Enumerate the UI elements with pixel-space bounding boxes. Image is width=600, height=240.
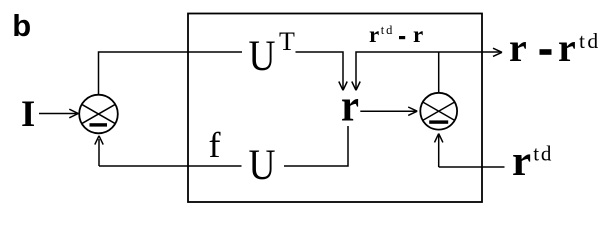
wire f/U horizontal line left segment [99,165,242,167]
arrowhead down at r (left) [339,82,347,91]
M2 minus bar [429,120,448,123]
svg-text:U: U [249,33,276,80]
svg-text:T: T [279,27,295,56]
arrow r^td up into M2 [438,134,440,167]
svg-text:f: f [209,125,221,165]
multiplier node M2 (right circle) [420,93,457,130]
svg-text:r: r [512,138,531,185]
svg-text:I: I [21,94,35,135]
wire U^T to r (left elbow) [296,52,344,89]
svg-text:r: r [413,22,423,47]
svg-text:r: r [369,22,379,47]
svg-text:td: td [579,29,600,53]
svg-text:td: td [533,142,553,166]
svg-text:td: td [381,23,394,37]
wire from f/U line up into M1 (arrow) [98,139,100,166]
M2 cross X [423,102,455,121]
wire M1 top to U^T line [99,52,243,94]
svg-text:b: b [12,8,31,43]
svg-text:r: r [558,25,576,70]
M1 cross X [81,104,115,124]
arrow r to M2 [360,107,417,115]
svg-text:U: U [249,142,276,189]
arrowhead down at r (right) [352,82,360,91]
M1 minus bar [90,123,108,126]
arrow I to M1 [39,109,78,118]
arrowhead right at output r - r^td [493,48,502,56]
svg-text:r: r [341,81,359,131]
wire r^td horizontal into box [439,166,505,168]
wire U to r: right segment and up [284,126,348,166]
box (outer rectangle of model) [188,14,482,203]
wire junction down to M2 top [438,52,440,93]
svg-text:r: r [509,25,527,70]
wire top line right segment with junction to output [356,52,501,89]
multiplier node M1 (left circle) [79,95,118,134]
